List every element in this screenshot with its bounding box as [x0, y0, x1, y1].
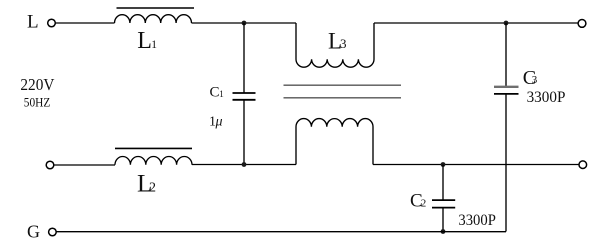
- label L2: [137, 171, 156, 198]
- svg-text:50HZ: 50HZ: [24, 95, 51, 110]
- inductor L1: [115, 8, 195, 23]
- node junction C2 top: [441, 162, 446, 167]
- svg-text:3: 3: [340, 36, 347, 51]
- capacitor C2: [432, 165, 455, 232]
- svg-text:G: G: [27, 222, 40, 242]
- inductor L3 bottom winding: [296, 119, 373, 165]
- wire L2 terminal to L2: [54, 164, 115, 166]
- wire L3 top to output: [374, 22, 578, 24]
- label L3: [328, 28, 347, 53]
- node junction top C1: [242, 21, 247, 26]
- inductor L3 core: [284, 85, 402, 98]
- inductor L2: [115, 148, 192, 164]
- wire L1 to L3 top: [192, 22, 297, 24]
- node output top terminal: [578, 20, 586, 28]
- node L terminal: [48, 19, 56, 27]
- svg-text:3300P: 3300P: [527, 89, 566, 106]
- svg-text:L: L: [27, 12, 39, 33]
- label L1: [137, 28, 157, 54]
- wire L2 to L3 bottom: [192, 164, 296, 166]
- label C2: [410, 191, 426, 212]
- svg-text:1: 1: [219, 89, 224, 99]
- svg-text:2: 2: [149, 181, 156, 196]
- svg-text:C: C: [210, 85, 220, 101]
- label C3: [523, 67, 538, 89]
- svg-text:μ: μ: [215, 115, 223, 130]
- wire ground: [56, 231, 506, 233]
- node junction top C3: [504, 21, 509, 26]
- node junction C2 bottom: [441, 229, 446, 234]
- node junction bottom C1: [242, 162, 247, 167]
- capacitor C1: [233, 23, 256, 165]
- svg-text:3300P: 3300P: [458, 212, 496, 229]
- svg-text:2: 2: [421, 198, 427, 210]
- capacitor C3: [494, 23, 519, 232]
- label C1: [210, 85, 224, 101]
- svg-text:220V: 220V: [20, 75, 55, 94]
- svg-text:L: L: [137, 28, 152, 54]
- wire L terminal to L1: [55, 22, 114, 24]
- node L2 left terminal: [46, 161, 54, 169]
- node G terminal: [49, 228, 57, 236]
- svg-text:3: 3: [532, 74, 538, 86]
- node output bottom terminal: [579, 161, 587, 169]
- svg-text:1: 1: [151, 39, 157, 51]
- label 1u: [209, 115, 223, 130]
- inductor L3 top winding: [296, 23, 374, 67]
- wire L3 bottom to output: [373, 164, 579, 166]
